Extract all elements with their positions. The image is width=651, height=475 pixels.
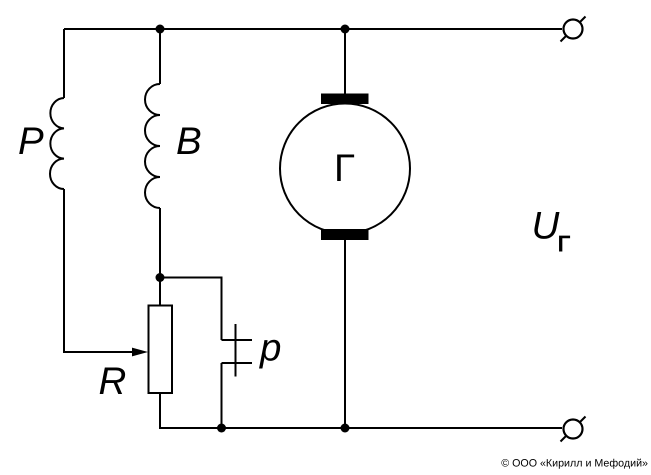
svg-text:Г: Г xyxy=(334,147,355,190)
svg-text:P: P xyxy=(18,120,44,163)
svg-text:U: U xyxy=(532,205,560,248)
svg-text:R: R xyxy=(99,360,127,403)
svg-text:p: p xyxy=(259,327,281,370)
svg-text:© ООО «Кирилл и Мефодий»: © ООО «Кирилл и Мефодий» xyxy=(501,457,648,469)
svg-text:Г: Г xyxy=(558,230,571,256)
svg-text:B: B xyxy=(176,120,202,163)
